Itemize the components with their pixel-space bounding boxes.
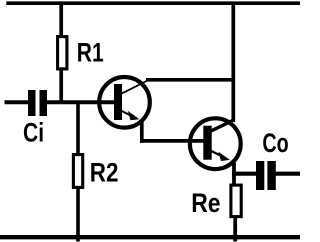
wire R1 top lead <box>59 2 63 37</box>
wire Q1 collector <box>146 78 235 82</box>
wire Re bottom lead <box>233 216 237 242</box>
wire R2 top lead <box>76 102 80 154</box>
transistor Q1 <box>99 77 150 128</box>
wire R2 bottom lead <box>76 187 80 242</box>
svg-text:Re: Re <box>191 188 220 218</box>
resistor Re <box>231 185 241 217</box>
wire Q2 collector vertical <box>231 2 235 122</box>
wire Q1 emitter vertical <box>140 122 144 143</box>
svg-text:Co: Co <box>262 129 288 159</box>
capacitor Ci <box>28 90 47 116</box>
label Re <box>191 188 220 218</box>
wire output segment <box>276 172 301 176</box>
wire emitter to Co <box>232 172 257 176</box>
wire bottom ground rail <box>0 235 300 239</box>
svg-text:R1: R1 <box>77 38 104 68</box>
resistor R2 <box>73 155 82 188</box>
capacitor Co <box>256 161 276 190</box>
label R1 <box>77 38 104 68</box>
svg-text:Ci: Ci <box>23 118 44 148</box>
resistor R1 <box>58 37 67 69</box>
wire base node <box>47 100 116 104</box>
wire top supply rail <box>6 1 300 5</box>
svg-text:R2: R2 <box>90 159 119 188</box>
label R2 <box>90 159 119 188</box>
wire R1 bottom lead <box>59 69 63 103</box>
wire input segment <box>5 100 29 104</box>
wire Q2 emitter vertical <box>232 163 236 186</box>
label Co <box>262 129 288 159</box>
label Ci <box>23 118 44 148</box>
wire Q1 emitter to Q2 base <box>140 139 205 143</box>
transistor Q2 <box>190 118 241 169</box>
